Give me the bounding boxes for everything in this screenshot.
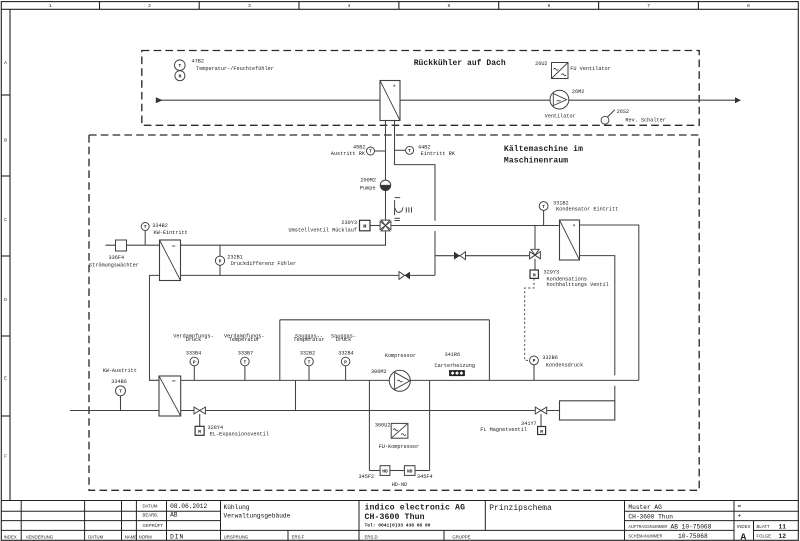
label 341Y7 [480, 421, 536, 433]
svg-text:T: T [144, 224, 147, 230]
sensor 332B6 [530, 356, 539, 365]
label 332B2 [293, 333, 324, 356]
label 300M2 Kompressor [371, 353, 416, 375]
wire RK return pipe [385, 121, 387, 220]
wire suction loop right [488, 320, 490, 381]
svg-text:*: * [572, 223, 576, 231]
wire equalizer connector [295, 380, 297, 410]
sensor 331B2 [539, 202, 548, 211]
svg-text:CH-3600 Thun: CH-3600 Thun [628, 514, 673, 521]
svg-text:1: 1 [49, 3, 52, 9]
wire RK feed pipe [395, 121, 436, 221]
label 232B1 [227, 254, 296, 267]
label 230Y3 [289, 220, 358, 234]
svg-text:230Y3: 230Y3 [341, 220, 357, 226]
svg-text:F: F [4, 454, 7, 460]
heat exchanger roof RK [380, 81, 400, 121]
svg-text:Kondensator Eintritt: Kondensator Eintritt [556, 206, 618, 212]
drain funnel symbol [394, 198, 411, 221]
switch 26S2 [601, 116, 609, 124]
svg-text:URSPRUNG: URSPRUNG [224, 534, 249, 539]
svg-text:FU Ventilator: FU Ventilator [570, 66, 610, 72]
label 26S2 [617, 109, 666, 123]
svg-text:Umstellventil Rücklauf: Umstellventil Rücklauf [289, 227, 358, 233]
svg-text:ERS.D: ERS.D [365, 534, 378, 539]
sensor 332B2 [305, 357, 314, 366]
svg-text:26U2: 26U2 [535, 61, 547, 67]
label 26U2 [535, 61, 611, 72]
wire 341Y7 actuator stem [540, 414, 542, 427]
svg-text:Rev. Schalter: Rev. Schalter [625, 117, 665, 123]
wire branch to 329Y3 [435, 255, 530, 257]
label 331B2 [553, 200, 618, 212]
wire 44B2 stem [395, 149, 406, 151]
svg-text:INDEX: INDEX [737, 524, 751, 529]
svg-text:Prinzipschema: Prinzipschema [489, 504, 552, 513]
title block texts [4, 502, 787, 541]
wire 45B2 stem [375, 150, 386, 152]
svg-text:Kondensdruck: Kondensdruck [546, 363, 583, 369]
sensor 334B6 [116, 386, 126, 396]
svg-text:P: P [533, 358, 536, 364]
svg-text:Druckdifferenz Fühler: Druckdifferenz Fühler [231, 261, 296, 267]
svg-text:Kühlung: Kühlung [224, 504, 250, 511]
wire 331B2 stem [543, 210, 545, 225]
label 45B2 [331, 144, 366, 157]
ruler letters [4, 60, 7, 460]
solenoid valve 341Y7 [535, 407, 546, 414]
label 328Y4 [208, 425, 269, 438]
svg-text:DIN: DIN [170, 534, 184, 541]
svg-text:T: T [119, 389, 122, 395]
svg-text:8: 8 [747, 3, 750, 9]
label 336F4 [89, 255, 139, 269]
svg-text:232B1: 232B1 [227, 254, 243, 260]
wire suction loop left [279, 320, 281, 381]
svg-text:Kältemaschine im: Kältemaschine im [504, 145, 583, 154]
wire HD ND right [415, 470, 430, 472]
check valve to 329Y3 [454, 252, 466, 260]
svg-text:Maschinenraum: Maschinenraum [504, 156, 568, 165]
svg-text:DATUM: DATUM [88, 534, 103, 539]
wire hot gas riser [580, 225, 639, 380]
valve 230Y3 three way [380, 220, 391, 231]
svg-text:Kompressor: Kompressor [385, 353, 416, 359]
node: machine room title [504, 145, 583, 166]
label 341R6 [435, 352, 475, 369]
svg-text:334B2: 334B2 [152, 223, 168, 229]
wire 232B1 stem [219, 245, 221, 275]
svg-text:Pumpe: Pumpe [360, 185, 376, 191]
sensor 47B2 TH [175, 60, 186, 81]
svg-text:45B2: 45B2 [353, 144, 365, 150]
svg-text:Carterheizung: Carterheizung [435, 363, 475, 369]
wire liquid line [181, 410, 560, 412]
sensor 334B2 [141, 223, 149, 231]
svg-text:B: B [4, 138, 7, 144]
svg-text:345F2: 345F2 [359, 474, 375, 480]
sensor 332B4 [341, 357, 350, 366]
label 333B7 [224, 333, 264, 356]
svg-text:FOLGE: FOLGE [757, 533, 772, 538]
wire HD ND loop right [429, 380, 431, 470]
actuator M 328Y4 [195, 426, 204, 435]
wire KW inlet [106, 244, 160, 246]
label 332B4 [331, 333, 356, 356]
compressor 300M2 [389, 370, 410, 391]
svg-text:44B2: 44B2 [418, 145, 430, 151]
frequency converter 300U2 [391, 423, 408, 438]
svg-text:E: E [4, 376, 7, 382]
flow switch 336F4 [116, 240, 127, 251]
svg-text:ND: ND [407, 469, 413, 475]
arrow roof supply in [156, 97, 163, 103]
wire return branch to HX1 [181, 274, 435, 276]
svg-text:Verwaltungsgebäude: Verwaltungsgebäude [224, 513, 291, 520]
crankcase heater 341R6 [449, 370, 465, 376]
label 334B6 [103, 368, 137, 385]
svg-text:BLATT: BLATT [757, 524, 770, 529]
svg-text:INDEX: INDEX [4, 534, 17, 539]
wire 328Y4 actuator stem [199, 414, 201, 426]
svg-text:2: 2 [148, 3, 151, 9]
wire 333B4 stem [193, 366, 195, 381]
wire suction loop top [280, 319, 490, 321]
label 200M2 [360, 178, 376, 192]
svg-text:Rückkühler auf Dach: Rückkühler auf Dach [414, 59, 506, 68]
svg-text:CH-3600 Thun: CH-3600 Thun [365, 512, 425, 522]
label 329Y3 [544, 269, 609, 288]
check valve to HX1 [399, 272, 410, 280]
svg-text:334B6: 334B6 [111, 379, 127, 385]
svg-text:12: 12 [779, 533, 787, 540]
wire 230Y3 bottom to HX1 [181, 231, 386, 245]
svg-text:332B6: 332B6 [542, 355, 558, 361]
svg-text:ERS.F: ERS.F [292, 534, 305, 539]
wire roof supply right [400, 99, 736, 101]
svg-text:H: H [178, 74, 181, 80]
label 334B2 [152, 223, 187, 236]
sensor 333B7 [241, 357, 250, 366]
svg-text:BEARB.: BEARB. [143, 512, 159, 517]
svg-text:26M2: 26M2 [572, 89, 584, 95]
arrow roof supply out [735, 97, 741, 103]
svg-text:Druck: Druck [336, 337, 352, 343]
svg-text:345F4: 345F4 [417, 474, 433, 480]
svg-text:NAME: NAME [125, 534, 138, 539]
pump 200M2 [380, 180, 390, 190]
svg-text:3: 3 [248, 3, 251, 9]
svg-text:M: M [540, 429, 543, 435]
actuator M 230Y3 [360, 220, 371, 231]
svg-text:P: P [219, 259, 222, 265]
svg-text:A: A [4, 60, 7, 66]
wire 332B2 stem [308, 366, 310, 381]
label 345F2 345F4 [359, 474, 433, 488]
svg-text:HD: HD [382, 469, 388, 475]
sensor 44B2 [406, 146, 414, 154]
svg-text:+: + [738, 513, 742, 520]
svg-text:T: T [243, 359, 246, 365]
svg-text:Temperatur: Temperatur [293, 337, 324, 343]
label 44B2 [418, 145, 456, 157]
valve 329Y3 three way [530, 249, 541, 258]
condenser [560, 220, 580, 260]
svg-text:Temperatur: Temperatur [229, 337, 260, 343]
frequency converter 26U2 [552, 63, 569, 79]
sensor 232B1 [215, 256, 224, 265]
svg-text:NORM: NORM [139, 534, 153, 539]
svg-text:10-75068: 10-75068 [678, 533, 708, 540]
actuator M 341Y7 [538, 427, 546, 435]
title block lines [1, 501, 798, 541]
svg-text:T: T [542, 204, 545, 210]
receiver [560, 401, 615, 420]
svg-text:300U2: 300U2 [375, 423, 391, 429]
sensor 333B4 [190, 357, 199, 366]
ruler numbers [49, 3, 750, 9]
actuator M 329Y3 [530, 270, 538, 278]
pressure switch HD 345F2 [380, 466, 390, 476]
svg-text:7: 7 [647, 3, 650, 9]
svg-text:KW-Eintritt: KW-Eintritt [154, 230, 188, 236]
svg-text:Muster AG: Muster AG [628, 504, 662, 511]
svg-text:FL Magnetventil: FL Magnetventil [480, 427, 527, 433]
svg-text:200M2: 200M2 [360, 178, 376, 184]
svg-text:=: = [738, 503, 742, 510]
wire KW outlet [70, 410, 159, 412]
svg-text:328Y4: 328Y4 [208, 425, 224, 431]
svg-text:T: T [408, 148, 411, 154]
wire 334B2 stem [144, 230, 146, 245]
svg-text:indico electronic AG: indico electronic AG [365, 502, 466, 512]
svg-text:336F4: 336F4 [109, 255, 125, 261]
svg-text:P: P [344, 359, 347, 365]
wire 230Y3 actuator stem [370, 225, 381, 227]
evaporator [159, 376, 181, 416]
svg-text:KW-Austritt: KW-Austritt [103, 368, 137, 374]
svg-text:AUFTRAGSNUMMER: AUFTRAGSNUMMER [628, 524, 667, 529]
svg-text:333B4: 333B4 [186, 350, 202, 356]
wire 329Y3 actuator stem [534, 259, 536, 270]
wire suction discharge line [181, 379, 639, 381]
svg-text:T: T [369, 149, 372, 155]
svg-text:Tel: 0041(0)33 438 08 00: Tel: 0041(0)33 438 08 00 [365, 523, 431, 529]
svg-text:C: C [4, 217, 7, 223]
svg-text:A: A [741, 532, 747, 541]
wire HX1 to evaporator [150, 275, 160, 380]
svg-text:332B2: 332B2 [300, 350, 316, 356]
wire control dashed 329Y3 to 332B6 [525, 278, 534, 360]
svg-text:332B4: 332B4 [338, 350, 354, 356]
svg-text:AB: AB [170, 511, 178, 518]
svg-text:AB 10-75068: AB 10-75068 [671, 523, 712, 530]
wire HD ND bottom [369, 470, 380, 472]
svg-text:T: T [308, 359, 311, 365]
svg-text:6: 6 [547, 3, 550, 9]
svg-text:341Y7: 341Y7 [521, 421, 537, 427]
svg-text:hochhalttungs Ventil: hochhalttungs Ventil [547, 282, 609, 288]
svg-text:Austritt RK: Austritt RK [331, 151, 366, 157]
svg-text:Temperatur-/Feuchtefühler: Temperatur-/Feuchtefühler [196, 66, 274, 72]
svg-text:P: P [193, 359, 196, 365]
svg-text:M: M [198, 429, 201, 435]
svg-text:GRUPPE: GRUPPE [452, 534, 470, 539]
svg-text:341R6: 341R6 [445, 352, 461, 358]
wire 329Y3 top stem [534, 226, 536, 250]
wire 334B6 stem [120, 396, 122, 411]
svg-text:FU-Kompressor: FU-Kompressor [379, 444, 419, 450]
wire 333B7 stem [244, 366, 246, 381]
svg-text:EL-Expansionsventil: EL-Expansionsventil [210, 432, 269, 438]
pressure switch ND 345F4 [404, 466, 415, 476]
svg-text:5: 5 [448, 3, 451, 9]
svg-text:47B2: 47B2 [192, 59, 204, 65]
svg-text:Druck: Druck [186, 337, 202, 343]
dashed box machine room [89, 135, 699, 490]
svg-text:329Y3: 329Y3 [544, 269, 560, 275]
wire liquid drop upper [580, 256, 615, 376]
svg-text:T: T [178, 63, 181, 69]
svg-text:M: M [363, 224, 366, 230]
svg-text:HD-ND: HD-ND [392, 482, 408, 488]
svg-text:AENDERUNG: AENDERUNG [26, 534, 54, 539]
svg-text:333B7: 333B7 [238, 350, 254, 356]
svg-text:300M2: 300M2 [371, 369, 387, 375]
svg-text:SCHEMANUMMER: SCHEMANUMMER [628, 533, 662, 538]
svg-text:DATUM: DATUM [143, 503, 158, 508]
svg-text:*: * [392, 84, 396, 92]
wire roof supply left [157, 99, 380, 101]
svg-text:Ventilator: Ventilator [545, 114, 576, 120]
svg-text:4: 4 [348, 3, 351, 9]
wire HD ND loop left [368, 380, 370, 470]
label 300U2 [375, 423, 419, 451]
label 26M2 [545, 89, 585, 120]
wire bypass riser [434, 231, 436, 275]
wire 332B6 stem [533, 365, 535, 381]
label 333B4 [173, 333, 213, 356]
fan 26M2 [550, 90, 569, 109]
svg-text:GEPRÜFT: GEPRÜFT [143, 523, 164, 528]
svg-text:D: D [4, 297, 7, 303]
svg-text:Strömungswächter: Strömungswächter [89, 263, 139, 269]
svg-text:26S2: 26S2 [617, 109, 629, 115]
svg-text:Eintritt RK: Eintritt RK [421, 151, 456, 157]
svg-text:11: 11 [779, 523, 787, 530]
heat exchanger HX1 [160, 240, 181, 281]
wire liquid drop lower [614, 386, 616, 401]
svg-text:M: M [533, 272, 536, 278]
svg-text:08.06.2012: 08.06.2012 [170, 503, 207, 510]
label 47B2 [192, 59, 274, 73]
wire 26S2 lever [608, 110, 615, 117]
label 332B6 [542, 355, 583, 369]
dashed box roof [142, 51, 699, 126]
wire 332B4 stem [345, 366, 347, 381]
wire HD ND middle [390, 470, 405, 472]
wire KW supply to condenser [391, 225, 560, 227]
expansion valve 328Y4 [194, 407, 205, 414]
sensor 45B2 [367, 147, 375, 155]
